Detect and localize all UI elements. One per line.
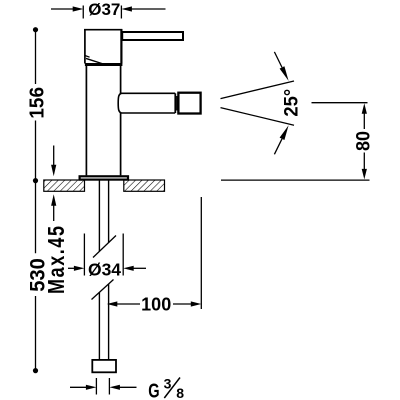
svg-text:25°: 25° [281, 89, 303, 117]
svg-text:8: 8 [176, 385, 184, 400]
svg-text:80: 80 [352, 131, 374, 151]
svg-text:Ø37: Ø37 [88, 0, 120, 19]
svg-text:Max.45: Max.45 [44, 226, 70, 294]
svg-text:G: G [148, 379, 159, 400]
svg-text:100: 100 [141, 294, 171, 314]
svg-text:156: 156 [26, 87, 49, 119]
svg-text:Ø34: Ø34 [88, 259, 121, 279]
